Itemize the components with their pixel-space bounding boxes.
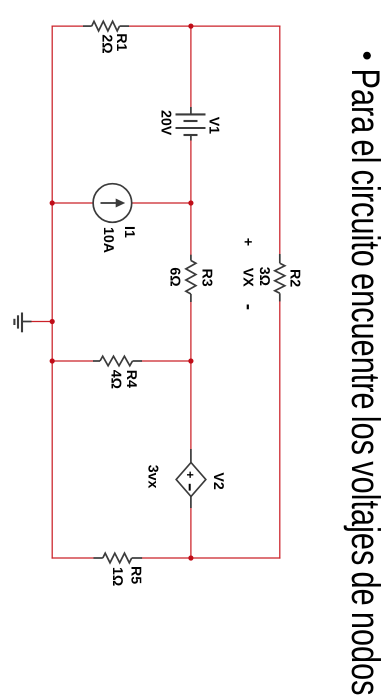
svg-text:V1: V1 (206, 117, 222, 134)
svg-text:V2: V2 (210, 472, 226, 489)
svg-text:1Ω: 1Ω (109, 567, 125, 586)
svg-text:2Ω: 2Ω (99, 34, 115, 53)
svg-text:R1: R1 (113, 33, 129, 51)
svg-text:6Ω: 6Ω (167, 267, 183, 286)
svg-text:+: + (183, 471, 197, 478)
svg-text:10A: 10A (100, 227, 116, 253)
svg-text:I1: I1 (121, 226, 137, 238)
svg-text:3vx: 3vx (145, 465, 161, 489)
svg-text:20V: 20V (158, 110, 174, 136)
svg-text:R5: R5 (128, 566, 144, 584)
svg-text:R2: R2 (287, 269, 303, 287)
svg-text:+: + (240, 238, 256, 246)
svg-text:Para el circuito encuentre los: Para el circuito encuentre los voltajes … (343, 69, 387, 696)
svg-text:R4: R4 (123, 370, 139, 388)
svg-text:VX: VX (240, 268, 256, 287)
svg-text:4Ω: 4Ω (108, 370, 124, 389)
svg-text:R3: R3 (199, 269, 215, 287)
svg-text:3Ω: 3Ω (256, 267, 272, 286)
